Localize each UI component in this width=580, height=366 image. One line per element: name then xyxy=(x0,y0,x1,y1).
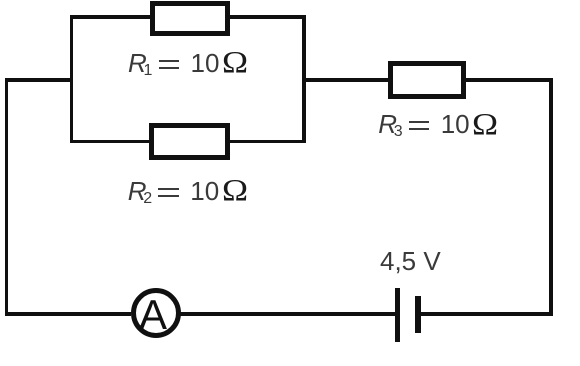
battery long plate (positive) xyxy=(395,288,400,341)
label R2 = 10 ohm xyxy=(129,181,259,211)
wire: middle horizontal left segment xyxy=(5,78,74,82)
wire: top branch left segment xyxy=(70,15,152,19)
label R1 = 10 ohm xyxy=(130,53,260,83)
wire: bottom branch left segment xyxy=(70,140,152,144)
resistor R2 xyxy=(149,123,230,160)
wire: top branch right segment xyxy=(229,15,306,19)
wire: R3 to right vertical xyxy=(466,78,553,82)
label 4,5 V xyxy=(380,250,510,280)
wire: outer left vertical xyxy=(5,78,9,316)
wire: parallel-left vertical xyxy=(70,15,74,143)
label R3 = 10 ohm xyxy=(380,114,510,144)
wire: bottom branch right segment xyxy=(229,140,306,144)
wire: bottom segment battery to right corner xyxy=(421,312,553,316)
resistor R3 xyxy=(388,61,467,99)
wire: bottom left segment to ammeter xyxy=(5,312,131,316)
wire: parallel-right vertical xyxy=(302,15,306,143)
ammeter A xyxy=(131,288,181,338)
ammeter letter A xyxy=(138,293,171,295)
wire: outer right vertical xyxy=(549,78,553,316)
battery short plate (negative) xyxy=(415,296,421,334)
wire: bottom segment ammeter to battery xyxy=(179,312,395,316)
resistor R1 xyxy=(150,1,230,36)
wire: middle horizontal to R3 xyxy=(302,78,388,82)
